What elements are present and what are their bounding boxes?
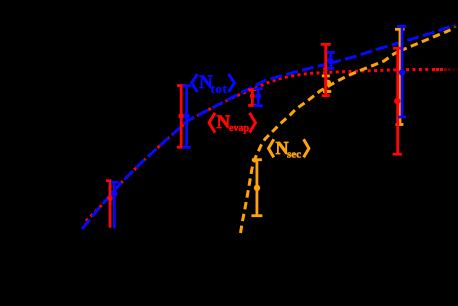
cluster 2 [185, 86, 188, 148]
red error bars [106, 44, 403, 227]
svg-text:evap: evap [229, 123, 249, 134]
orange dashed curve N_sec [241, 49, 405, 233]
orange dashed curve (right tail) [404, 30, 451, 49]
blue long-dashed curve (right tail) [325, 27, 450, 65]
svg-text:sec: sec [287, 149, 301, 161]
cluster 1 [109, 181, 112, 228]
red dotted curve N_evap [86, 69, 431, 221]
cluster 3 [251, 90, 254, 106]
cluster 3b [255, 160, 258, 216]
cluster 1 [113, 182, 116, 228]
cluster 5 [396, 48, 399, 154]
cluster 4 [324, 76, 327, 92]
svg-text:tot: tot [211, 81, 228, 96]
cluster 3 [257, 89, 260, 106]
label N_evap (red) [209, 112, 256, 134]
blue error bars [111, 26, 406, 228]
red dotted curve fading tail [432, 68, 458, 71]
faint dash remnants near top-right corner [453, 24, 457, 27]
label N_tot (blue) [192, 72, 235, 96]
cluster 5 [399, 29, 402, 124]
orange error bars [251, 29, 404, 215]
label N_sec (orange) [269, 138, 309, 161]
cluster 5 [401, 26, 404, 117]
cluster 4 [324, 44, 327, 95]
blue long-dashed curve N_tot [82, 65, 325, 230]
cluster 4 [329, 53, 332, 69]
cluster 2 [180, 86, 183, 148]
